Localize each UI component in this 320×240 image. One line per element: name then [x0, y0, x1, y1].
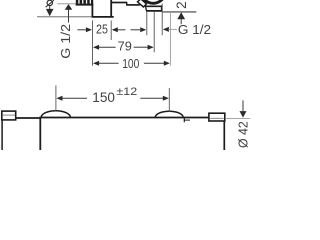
extension line A: [146, 12, 148, 35]
svg-text:±12: ±12: [116, 86, 137, 98]
extension line neck-right: [110, 20, 112, 40]
flange right edge: [161, 5, 163, 11]
G 1/2 leader arrow (right): [163, 27, 169, 32]
left cap midline: [3, 114, 15, 116]
knurled handle bars: [76, 0, 93, 4]
dim 79 left shaft: [99, 46, 116, 48]
neck bottom line: [92, 16, 114, 18]
port reference line (right): [163, 11, 197, 13]
dim 150 right extension: [168, 88, 170, 112]
dim 2 stem (right): [180, 19, 182, 24]
right wall-mount dome: [155, 111, 183, 117]
dim 25 right shaft: [117, 29, 125, 31]
joint tick horizontal: [184, 119, 190, 121]
flange top line: [145, 5, 162, 7]
G 1/2 leader stem (left): [68, 10, 70, 23]
body bottom edge (lower segment): [126, 4, 140, 6]
svg-text:G 1/2: G 1/2: [178, 23, 211, 37]
extension line B (union axis): [153, 12, 155, 52]
svg-text:100: 100: [122, 57, 139, 71]
dim 150 right shaft: [140, 97, 164, 99]
extension line D (gray): [169, 12, 171, 66]
dim 25 left shaft: [77, 29, 86, 31]
svg-text:G 1/2: G 1/2: [59, 24, 73, 59]
diameter symbol (cut): [46, 0, 54, 7]
G 1/2 leader arrow up (left): [65, 4, 73, 10]
right ribbed cap: [209, 113, 225, 121]
extension line C (flange edge): [161, 4, 163, 36]
svg-text:150: 150: [92, 90, 115, 106]
body bottom edge (upper segment): [112, 2, 127, 4]
dim 150 left arrow: [56, 96, 62, 101]
body edge step: [126, 2, 128, 5]
dim 100 right shaft: [144, 62, 165, 64]
handle centerline (left stub): [58, 3, 76, 5]
body top line: [40, 117, 210, 119]
connector line: [16, 117, 41, 119]
mid shaft dash: [131, 29, 141, 31]
G 1/2 leader line (right): [168, 28, 177, 30]
diameter leader stem: [49, 6, 51, 9]
joint tick vertical: [183, 118, 185, 123]
dim Ø42 stem: [242, 100, 244, 111]
centerline right: [225, 118, 250, 120]
arrow at line A: [140, 27, 146, 32]
flange left slant: [145, 6, 146, 11]
left wall-mount dome: [41, 111, 70, 118]
dim 79 right shaft: [134, 46, 150, 48]
dim 100 right arrow: [164, 61, 170, 66]
dim 2 leader arrow up (right): [177, 12, 185, 19]
dim 79 right arrow: [148, 45, 154, 50]
dim 100 left arrow: [93, 61, 99, 66]
flange bottom line: [146, 10, 162, 12]
hose nipple (tilted): [138, 0, 147, 7]
extension line neck-left: [92, 20, 94, 65]
body left edge: [39, 117, 41, 150]
svg-text:79: 79: [118, 40, 132, 54]
dim 100 left shaft: [99, 62, 119, 64]
left handle ribbed cap: [2, 111, 16, 120]
body right edge: [223, 121, 225, 150]
right cap midline: [210, 117, 223, 119]
svg-text:Ø 42: Ø 42: [237, 121, 250, 148]
dim 150 left shaft: [62, 97, 87, 99]
knurled handle bottom band: [76, 4, 94, 6]
dim 150 right arrow: [163, 96, 169, 101]
datum line left: [37, 16, 92, 18]
left handle lower edge: [1, 120, 3, 150]
dim Ø42 arrow down: [240, 111, 247, 118]
svg-text:25: 25: [96, 22, 108, 36]
neck right edge: [110, 0, 112, 17]
dim 25 left arrow: [86, 27, 92, 32]
dim 150 left extension: [55, 85, 57, 111]
svg-text:2: 2: [174, 1, 189, 9]
union nut arc: [141, 0, 165, 3]
dim 25 right arrow: [112, 27, 118, 32]
diameter arrow down: [46, 9, 54, 16]
dim 79 left arrow: [93, 45, 99, 50]
neck left edge: [91, 4, 93, 18]
